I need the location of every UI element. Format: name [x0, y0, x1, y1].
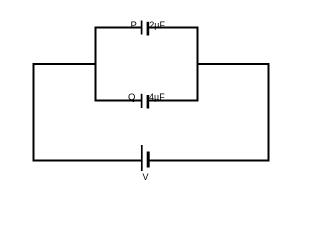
svg-text:Q: Q — [128, 92, 135, 103]
wire: inner rectangle right edge — [197, 27, 199, 102]
wire: inner rectangle left edge — [95, 27, 97, 102]
wire: right tap (inner rectangle to outer loop) — [197, 63, 270, 65]
wire: outer loop left vertical — [33, 63, 35, 162]
capacitor Q left plate — [141, 94, 143, 108]
wire: top edge right segment (capacitor P right plate to right node) — [148, 27, 199, 29]
wire: top edge left segment (node to capacitor P left plate) — [95, 27, 142, 29]
svg-text:4µF: 4µF — [149, 92, 165, 102]
wire: bottom edge left segment (to battery positive plate) — [33, 160, 142, 162]
capacitor P right plate — [147, 22, 150, 36]
wire: inner bottom edge left segment (to capacitor Q left plate) — [95, 100, 142, 102]
wire: bottom edge right segment (battery negative plate to right) — [149, 160, 270, 162]
battery V positive plate (long thin) — [141, 145, 143, 171]
capacitor P left plate — [141, 21, 143, 35]
wire: outer loop right vertical — [268, 63, 270, 162]
capacitor Q right plate — [147, 95, 150, 109]
battery V negative plate (short thick) — [147, 152, 150, 168]
svg-text:P: P — [131, 20, 137, 31]
svg-text:V: V — [143, 172, 149, 182]
svg-text:2µF: 2µF — [149, 20, 165, 30]
wire: inner bottom edge right segment (capacitor Q right plate to right node) — [148, 100, 199, 102]
wire: left tap (outer loop to inner rectangle midpoint) — [33, 63, 97, 65]
